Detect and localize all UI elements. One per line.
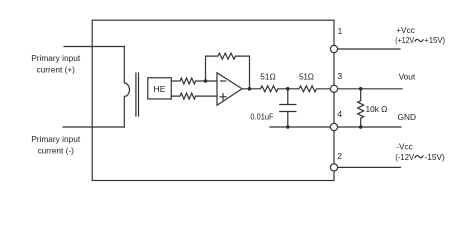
svg-text:(-12V: (-12V <box>395 152 414 162</box>
svg-text:Primary input: Primary input <box>31 53 81 63</box>
svg-text:Vout: Vout <box>399 72 416 82</box>
svg-text:4: 4 <box>337 109 342 119</box>
svg-text:51Ω: 51Ω <box>299 72 314 82</box>
svg-text:(+12V: (+12V <box>395 35 414 45</box>
svg-text:+15V): +15V) <box>424 35 445 45</box>
svg-text:GND: GND <box>398 112 416 122</box>
svg-text:-15V): -15V) <box>425 152 446 162</box>
svg-text:HE: HE <box>154 84 166 94</box>
svg-text:-Vcc: -Vcc <box>396 142 413 152</box>
svg-text:1: 1 <box>338 26 343 36</box>
svg-text:10k Ω: 10k Ω <box>366 104 388 114</box>
svg-text:+Vcc: +Vcc <box>396 25 415 35</box>
svg-text:3: 3 <box>337 71 342 81</box>
svg-text:current (-): current (-) <box>37 146 74 156</box>
svg-text:2: 2 <box>337 151 342 161</box>
svg-text:current (+): current (+) <box>36 64 75 74</box>
svg-text:51Ω: 51Ω <box>260 72 276 82</box>
svg-text:0.01uF: 0.01uF <box>250 112 273 122</box>
svg-text:Primary input: Primary input <box>31 134 81 144</box>
